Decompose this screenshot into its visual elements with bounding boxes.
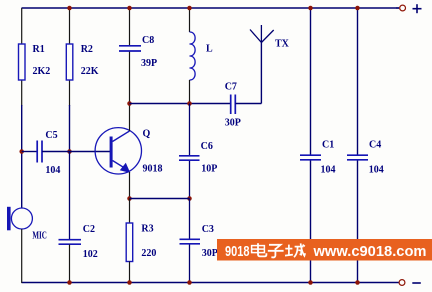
- wire C2 to bottom rail: [69, 245, 71, 284]
- node A (left rail / C5): [19, 149, 24, 154]
- node L top: [187, 6, 192, 11]
- wire base lead: [70, 151, 111, 153]
- wire base node to C2: [69, 152, 71, 240]
- node emitter row left: [127, 196, 132, 201]
- wire R3 bottom lead: [129, 262, 131, 284]
- wire C8 column: [129, 8, 131, 104]
- wire left rail upper (R1 leads): [21, 8, 23, 152]
- svg-text:30P: 30P: [202, 248, 218, 259]
- svg-text:10P: 10P: [201, 164, 217, 175]
- svg-text:R1: R1: [33, 44, 45, 55]
- resistor R2: [66, 44, 73, 80]
- svg-text:L: L: [206, 44, 213, 55]
- svg-text:MIC: MIC: [32, 231, 47, 242]
- svg-text:9018: 9018: [143, 164, 163, 175]
- svg-text:R3: R3: [141, 224, 153, 235]
- wire emitter down: [129, 172, 131, 199]
- antenna TX: [250, 25, 290, 50]
- node R2 top: [67, 6, 72, 11]
- node R3 bottom: [127, 280, 132, 285]
- capacitor C3: [180, 224, 218, 259]
- watermark banner: [217, 239, 432, 261]
- microphone MIC: [7, 207, 47, 242]
- node C4 top: [355, 6, 360, 11]
- wire C3 column: [189, 199, 191, 284]
- svg-text:39P: 39P: [141, 58, 157, 69]
- svg-text:www.c9018.com: www.c9018.com: [313, 243, 427, 260]
- capacitor C2: [59, 224, 98, 260]
- svg-text:2K2: 2K2: [33, 66, 51, 77]
- node tank right: [187, 101, 192, 106]
- svg-text:30P: 30P: [225, 118, 241, 129]
- svg-text:C6: C6: [201, 141, 213, 152]
- wire L top lead: [189, 8, 191, 32]
- wire tank row: [130, 103, 231, 105]
- node C8 top: [127, 6, 132, 11]
- svg-text:C7: C7: [225, 82, 237, 93]
- resistor R3: [126, 223, 133, 262]
- terminal +: [400, 4, 422, 13]
- node tank left: [127, 101, 132, 106]
- capacitor C4: [347, 140, 384, 176]
- node B (base node): [67, 149, 72, 154]
- node C1 top: [308, 6, 313, 11]
- node C1 bottom: [308, 280, 313, 285]
- wire top rail: [22, 7, 400, 9]
- capacitor C5: [22, 130, 70, 176]
- svg-text:Q: Q: [143, 129, 151, 140]
- transistor Q1 9018: [95, 128, 162, 175]
- wire R2 column leads: [69, 8, 71, 152]
- svg-text:220: 220: [141, 248, 156, 259]
- hanzi dian: [252, 243, 267, 256]
- capacitor C6: [179, 141, 217, 175]
- terminal -: [399, 280, 421, 286]
- svg-text:C1: C1: [322, 140, 334, 151]
- wire R3 top lead: [129, 199, 131, 224]
- svg-text:104: 104: [369, 165, 384, 176]
- node C2 bottom: [67, 280, 72, 285]
- wire left rail lower to MIC: [21, 152, 23, 209]
- hanzi zi: [268, 245, 284, 258]
- svg-text:9018: 9018: [225, 243, 250, 260]
- wire emitter row: [130, 198, 190, 200]
- svg-text:104: 104: [321, 165, 336, 176]
- capacitor C7: [225, 82, 241, 129]
- hanzi cheng: [285, 243, 305, 257]
- capacitor C8: [119, 35, 157, 69]
- svg-text:C8: C8: [142, 35, 154, 46]
- svg-text:C4: C4: [369, 140, 381, 151]
- node emitter row right: [187, 196, 192, 201]
- svg-text:22K: 22K: [81, 66, 99, 77]
- svg-text:C2: C2: [83, 224, 95, 235]
- capacitor C1: [300, 140, 336, 176]
- node C3 bottom: [187, 280, 192, 285]
- wire bottom rail: [22, 282, 400, 284]
- svg-text:102: 102: [83, 249, 98, 260]
- wire collector up: [129, 104, 131, 132]
- svg-text:C5: C5: [45, 130, 57, 141]
- svg-text:TX: TX: [275, 39, 290, 50]
- node C4 bottom: [355, 280, 360, 285]
- wire C1 column: [310, 8, 312, 283]
- wire C7 to antenna: [236, 42, 262, 104]
- wire C6 column: [189, 104, 191, 199]
- inductor L: [190, 32, 214, 80]
- svg-text:R2: R2: [81, 44, 93, 55]
- svg-text:104: 104: [45, 165, 60, 176]
- wire C4 column: [357, 8, 359, 283]
- wire L bottom lead: [189, 80, 191, 104]
- wire MIC to bottom rail: [21, 229, 23, 283]
- resistor R1: [19, 44, 26, 80]
- svg-text:C3: C3: [202, 224, 214, 235]
- wire stub to + terminal: [396, 7, 399, 9]
